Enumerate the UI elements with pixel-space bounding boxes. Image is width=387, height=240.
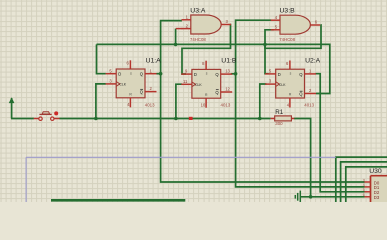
svg-text:6: 6	[286, 61, 289, 66]
svg-text:2: 2	[186, 23, 189, 28]
svg-text:U2:A: U2:A	[305, 57, 321, 64]
svg-text:D: D	[278, 72, 281, 77]
svg-text:5: 5	[109, 68, 112, 73]
svg-text:s: s	[130, 71, 132, 75]
svg-text:D3: D3	[374, 195, 380, 200]
svg-text:U1:A: U1:A	[146, 57, 162, 64]
svg-text:3: 3	[109, 79, 112, 84]
svg-text:D: D	[118, 72, 121, 77]
svg-text:6: 6	[363, 193, 365, 197]
svg-text:CLK: CLK	[279, 83, 286, 87]
svg-text:4013: 4013	[221, 103, 231, 108]
svg-text:1: 1	[150, 68, 153, 73]
svg-text:4: 4	[363, 183, 365, 187]
svg-text:12: 12	[225, 87, 230, 92]
svg-text:1: 1	[309, 69, 312, 74]
svg-text:5: 5	[275, 25, 278, 30]
svg-text:CLK: CLK	[195, 83, 202, 87]
svg-text:5: 5	[363, 188, 365, 192]
svg-text:74HC08: 74HC08	[279, 37, 295, 42]
svg-text:4013: 4013	[145, 102, 155, 107]
svg-text:2: 2	[309, 88, 312, 93]
svg-text:U30: U30	[369, 168, 382, 175]
svg-text:5: 5	[269, 69, 272, 74]
svg-text:s: s	[206, 72, 208, 76]
svg-text:3: 3	[363, 178, 365, 182]
svg-text:4: 4	[275, 15, 278, 20]
svg-text:U3:B: U3:B	[280, 8, 296, 15]
svg-text:300: 300	[275, 121, 283, 126]
svg-text:1: 1	[186, 15, 189, 20]
svg-text:U3:A: U3:A	[190, 8, 206, 15]
svg-text:6: 6	[126, 61, 129, 66]
svg-text:13: 13	[225, 69, 230, 74]
svg-text:8: 8	[202, 61, 205, 66]
svg-text:74HC08: 74HC08	[190, 37, 206, 42]
svg-text:11: 11	[183, 79, 188, 84]
svg-text:3: 3	[269, 79, 272, 84]
svg-text:D: D	[194, 72, 197, 77]
svg-text:U1:B: U1:B	[221, 57, 237, 64]
svg-text:R1: R1	[275, 109, 283, 116]
svg-text:4013: 4013	[304, 103, 314, 108]
svg-text:2: 2	[150, 86, 153, 91]
svg-text:9: 9	[185, 69, 188, 74]
svg-text:CLK: CLK	[119, 83, 126, 87]
svg-text:3: 3	[226, 19, 229, 24]
svg-text:s: s	[290, 72, 292, 76]
svg-text:10: 10	[201, 103, 206, 108]
svg-text:6: 6	[315, 19, 318, 24]
